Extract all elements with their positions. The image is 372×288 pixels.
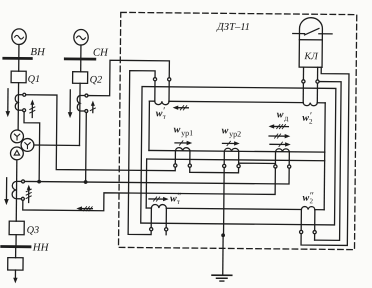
busbar НН [2, 245, 30, 248]
svg-text:НН: НН [32, 242, 50, 254]
core R2 (lower core loop) [146, 150, 325, 209]
arrow primary current I1 (down) [7, 89, 9, 113]
transformer T (three-winding Y/Y/Δ) [10, 130, 34, 160]
wire busbar to load box [15, 248, 17, 258]
wire W5: CT TA3 bottom to w_д left terminal [23, 166, 276, 213]
wire Δ winding down to Q3 [15, 160, 18, 221]
arrow МДС w_T'' (right, hashed) [149, 197, 169, 202]
ground [212, 275, 232, 281]
svg-text:д: д [284, 113, 288, 122]
w_2'' terminal leads [301, 210, 315, 231]
wire G1 to busbar ВН [18, 44, 20, 57]
svg-text:w: w [222, 125, 229, 136]
arrow primary current I2 (down) [69, 90, 71, 114]
wire Q3 to busbar НН [15, 235, 17, 246]
generator G1 (ВН source) [12, 29, 27, 45]
wire W1: CT TA1 top to w_ур1 left terminal [25, 95, 176, 171]
arrow on W5 (left, hashed) [76, 206, 92, 211]
svg-text:ВН: ВН [30, 46, 46, 58]
node W4-L183 [84, 180, 88, 184]
svg-text:ДЗТ–11: ДЗТ–11 [216, 22, 250, 33]
wire G2 to busbar СН [80, 45, 82, 58]
breaker Q2 [73, 72, 88, 84]
arrow МДС w_ур2 (right, slashed) [222, 141, 239, 146]
wire КЛ coil right lead [317, 67, 319, 80]
winding w_ур2 (arcs on R1 bottom edge) [224, 148, 238, 151]
arrow МДС w_T' (left, hashed) [173, 105, 189, 110]
winding w_ур1 (arcs on R1 bottom edge) [175, 148, 190, 151]
w_д terminal leads [275, 152, 289, 165]
arrow w_д 2 (right, hashed) [269, 134, 290, 139]
stub w_T'' right terminal to line [165, 231, 167, 235]
w_T'' terminal leads [151, 208, 166, 228]
node W2-L183 [37, 180, 41, 184]
wire ground drop [222, 235, 224, 275]
wire terminal to w2' left junction [302, 83, 304, 103]
breaker Q3 [9, 221, 24, 235]
wire w_ур2 left to ground [223, 168, 226, 236]
svg-text:Q2: Q2 [90, 75, 103, 86]
CT TA3 secondary [12, 180, 24, 201]
arrow w_д 1 (left, hashed) [269, 124, 289, 129]
wire W2: CT TA1 bottom down to common line [23, 112, 39, 182]
svg-text:2: 2 [309, 118, 313, 126]
load box [8, 258, 23, 271]
winding w_T'' (arcs on R2 bottom) [151, 204, 166, 208]
terminal [302, 80, 305, 83]
stub to w2'' right terminal [314, 234, 316, 240]
svg-text:ур1: ур1 [181, 128, 193, 137]
svg-text:КЛ: КЛ [303, 51, 319, 62]
winding w_2' (arcs on R1 top edge) [303, 103, 317, 106]
winding w_2'' (arcs on R2 bottom) [301, 207, 315, 210]
wire terminal to w2' right junction [316, 83, 318, 103]
w_T' terminal leads [155, 81, 169, 102]
wire КЛ coil left lead [302, 67, 304, 80]
relay КЛ (executive relay) [299, 18, 322, 68]
terminal [316, 80, 319, 83]
arrow secondary current (up, slashed) [90, 101, 95, 113]
arrow to load (down) [14, 270, 16, 279]
CT TA1 secondary [15, 93, 26, 112]
winding w_T' (arcs on R1 top edge) [155, 101, 169, 105]
busbar ВН [4, 57, 31, 60]
arrow primary current I3 (down) [5, 178, 7, 201]
relay ДЗТ-11 dashed boundary [119, 12, 357, 249]
wire bridge w_ур2 right to w_д left [239, 163, 276, 165]
node ground tap [221, 233, 225, 237]
core R1 (saturating transformer upper core) [149, 101, 325, 152]
breaker Q1 [11, 71, 26, 83]
svg-text:Q1: Q1 [28, 74, 41, 85]
contact of КЛ [293, 28, 332, 35]
wire W3: CT TA2 top to w_T' right terminal [88, 60, 169, 96]
wire L183: common return to w_д right terminal [25, 166, 290, 184]
wire КЛ right terminal to w2'' right loop [315, 82, 342, 241]
w_ур1 terminal leads [175, 151, 190, 164]
svg-text:СН: СН [93, 47, 109, 59]
svg-text:Q3: Q3 [27, 225, 40, 236]
wire Q1 to transformer [17, 83, 19, 130]
wire busbar to Q2 [80, 60, 82, 71]
winding w_д (arcs on R1 bottom edge) [276, 149, 290, 152]
wire Q2 down to СН winding link [78, 83, 81, 145]
arrow МДС w_ур1 (right, slashed) [175, 141, 192, 146]
wire big loop around R1 [141, 87, 336, 225]
svg-text:т: т [163, 113, 166, 121]
svg-text:2: 2 [309, 197, 313, 205]
svg-text:т: т [177, 198, 180, 206]
arrow secondary current (up, slashed) [26, 185, 31, 203]
w_ур2 terminal leads [224, 151, 239, 164]
svg-text:w: w [277, 109, 284, 120]
wire chain w_ур1 right to w_ур2 right [190, 167, 239, 173]
wire КЛ trip loop (outer) [301, 67, 349, 245]
CT TA2 secondary [77, 94, 88, 113]
wire busbar to Q1 [18, 60, 20, 71]
busbar СН [65, 57, 94, 60]
svg-text:ур2: ур2 [229, 129, 241, 138]
wire СН winding link [34, 144, 80, 146]
wire w_T' left terminal loop to w_T'' left terminal [128, 71, 155, 235]
svg-text:w: w [174, 124, 181, 135]
wire W4: CT TA2 bottom down to common line [85, 113, 88, 182]
generator G2 (СН source) [74, 29, 89, 45]
arrow w_д 3 (right, slashed) [270, 142, 291, 147]
arrow secondary current (up, slashed) [30, 99, 35, 117]
